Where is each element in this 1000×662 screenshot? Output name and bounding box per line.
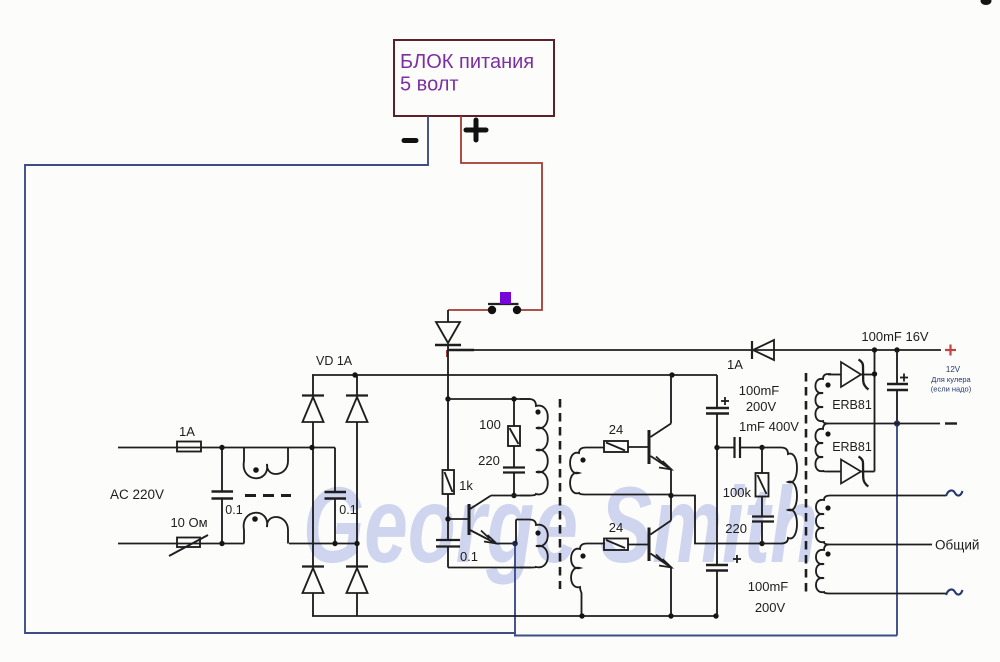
svg-text:БЛОК питания: БЛОК питания [400,51,534,73]
svg-text:1A: 1A [179,424,195,439]
svg-text:24: 24 [609,520,623,535]
svg-text:10 Ом: 10 Ом [170,515,207,530]
svg-text:0.1: 0.1 [225,503,242,517]
svg-text:220: 220 [725,521,747,536]
svg-text:100mF 16V: 100mF 16V [861,329,929,344]
svg-text:200V: 200V [746,399,777,414]
svg-text:1mF 400V: 1mF 400V [739,419,799,434]
svg-text:Для кулера: Для кулера [931,375,971,384]
svg-text:AC 220V: AC 220V [110,487,164,502]
svg-text:220: 220 [478,453,500,468]
svg-text:Общий: Общий [935,538,979,553]
svg-text:100: 100 [479,417,501,432]
svg-text:VD 1A: VD 1A [316,354,353,368]
svg-text:100mF: 100mF [739,383,780,398]
svg-text:ERB81: ERB81 [832,398,872,412]
svg-text:1k: 1k [459,478,473,493]
svg-text:200V: 200V [755,600,786,615]
svg-text:0.1: 0.1 [460,549,478,564]
svg-text:12V: 12V [946,365,961,374]
svg-text:100mF: 100mF [748,579,789,594]
svg-text:5 волт: 5 волт [400,74,459,96]
svg-text:0.1: 0.1 [339,503,356,517]
svg-text:1A: 1A [727,357,743,372]
svg-text:24: 24 [609,422,623,437]
svg-text:100k: 100k [723,485,752,500]
svg-text:(если надо): (если надо) [931,385,972,394]
svg-text:ERB81: ERB81 [832,440,872,454]
